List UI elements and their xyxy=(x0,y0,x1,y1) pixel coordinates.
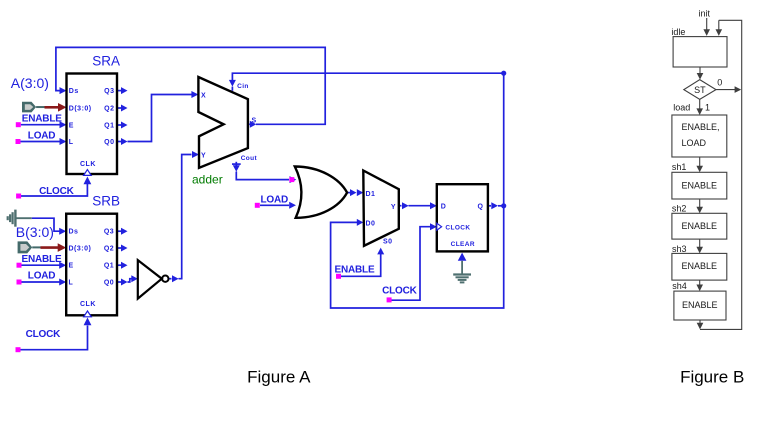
svg-text:A(3:0): A(3:0) xyxy=(11,75,49,91)
svg-text:LOAD: LOAD xyxy=(682,138,707,148)
svg-text:Figure A: Figure A xyxy=(247,368,311,387)
svg-text:1: 1 xyxy=(705,102,710,112)
svg-text:L: L xyxy=(69,280,74,287)
svg-text:LOAD: LOAD xyxy=(28,271,56,282)
svg-text:LOAD: LOAD xyxy=(28,130,56,141)
svg-text:CLOCK: CLOCK xyxy=(445,224,470,231)
svg-text:ST: ST xyxy=(694,85,706,95)
svg-text:E: E xyxy=(69,123,74,130)
svg-text:sh4: sh4 xyxy=(672,281,687,291)
svg-text:ENABLE: ENABLE xyxy=(22,254,62,265)
svg-text:S: S xyxy=(252,117,257,124)
svg-text:ENABLE: ENABLE xyxy=(682,180,718,190)
svg-text:CLK: CLK xyxy=(80,301,96,308)
svg-text:E: E xyxy=(69,263,74,270)
svg-text:Q2: Q2 xyxy=(104,246,114,253)
svg-text:ENABLE: ENABLE xyxy=(682,221,718,231)
svg-text:D0: D0 xyxy=(366,220,376,227)
svg-text:D1: D1 xyxy=(366,191,376,198)
svg-text:Q: Q xyxy=(478,203,484,210)
svg-text:CLK: CLK xyxy=(80,161,96,168)
svg-text:X: X xyxy=(201,92,206,99)
svg-text:SRA: SRA xyxy=(92,54,120,69)
svg-text:ENABLE: ENABLE xyxy=(682,261,718,271)
svg-text:Q0: Q0 xyxy=(104,280,114,287)
svg-text:ENABLE: ENABLE xyxy=(22,114,62,125)
svg-text:Q0: Q0 xyxy=(104,139,114,146)
svg-text:sh1: sh1 xyxy=(672,162,687,172)
svg-text:CLOCK: CLOCK xyxy=(39,186,75,197)
svg-text:Ds: Ds xyxy=(69,229,79,236)
svg-text:Cin: Cin xyxy=(237,83,249,90)
svg-text:Q3: Q3 xyxy=(104,88,114,95)
svg-text:Q1: Q1 xyxy=(104,263,114,270)
svg-text:D: D xyxy=(441,203,447,210)
svg-text:CLEAR: CLEAR xyxy=(451,241,475,248)
svg-text:Y: Y xyxy=(201,153,206,160)
svg-text:idle: idle xyxy=(671,27,685,37)
svg-text:ENABLE,: ENABLE, xyxy=(682,122,720,132)
svg-text:Y: Y xyxy=(391,204,396,211)
svg-text:S0: S0 xyxy=(383,239,393,246)
svg-text:Ds: Ds xyxy=(69,88,79,95)
svg-text:ENABLE: ENABLE xyxy=(335,265,375,276)
svg-text:sh3: sh3 xyxy=(672,244,687,254)
svg-text:SRB: SRB xyxy=(92,194,120,209)
svg-text:L: L xyxy=(69,139,74,146)
svg-text:0: 0 xyxy=(717,77,722,87)
svg-text:sh2: sh2 xyxy=(672,204,687,214)
svg-text:Q1: Q1 xyxy=(104,123,114,130)
svg-text:Q2: Q2 xyxy=(104,106,114,113)
svg-text:D(3:0): D(3:0) xyxy=(69,246,92,253)
svg-text:Cout: Cout xyxy=(241,155,258,162)
svg-text:Figure B: Figure B xyxy=(680,368,744,387)
svg-text:D(3:0): D(3:0) xyxy=(69,106,92,113)
svg-text:load: load xyxy=(673,102,690,112)
svg-text:CLOCK: CLOCK xyxy=(26,329,62,340)
svg-text:CLOCK: CLOCK xyxy=(382,286,418,297)
svg-text:ENABLE: ENABLE xyxy=(682,300,718,310)
svg-text:LOAD: LOAD xyxy=(261,195,289,206)
svg-text:B(3:0): B(3:0) xyxy=(16,224,54,240)
svg-text:Q3: Q3 xyxy=(104,229,114,236)
svg-text:init: init xyxy=(699,8,711,18)
svg-text:adder: adder xyxy=(192,172,223,186)
